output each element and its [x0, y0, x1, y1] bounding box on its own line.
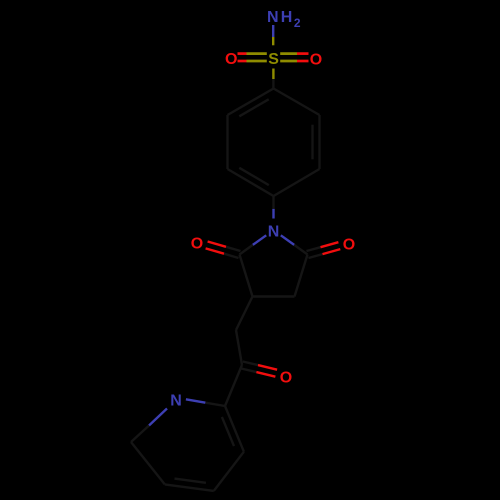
svg-text:N: N — [170, 392, 182, 409]
svg-text:O: O — [191, 236, 203, 253]
double bond C2=O2 — [206, 242, 241, 259]
bond NH2-S — [272, 25, 274, 45]
bond carbonyl-pyridine C2 — [225, 365, 242, 406]
sulfonyl oxygen O left label — [225, 51, 237, 68]
double bond C5=O5 — [307, 242, 341, 258]
bond S-benzene — [272, 69, 274, 89]
pyridine nitrogen N label — [170, 392, 182, 409]
double bond S=O right — [280, 54, 308, 61]
sulfonyl oxygen O right label — [310, 51, 322, 68]
svg-text:H: H — [281, 9, 293, 26]
svg-text:O: O — [310, 51, 322, 68]
bond N1-C2 — [240, 235, 267, 254]
bond C3-C4 — [253, 295, 295, 297]
double bond S=O left — [238, 54, 267, 61]
bond benzene-N1 — [272, 196, 274, 219]
svg-text:O: O — [280, 369, 292, 386]
sulfur S label — [268, 51, 279, 68]
bond CH2-carbonyl — [236, 330, 242, 365]
svg-text:O: O — [343, 237, 355, 254]
svg-text:N: N — [267, 9, 279, 26]
bond C2-C3 — [240, 255, 253, 297]
bond C3-CH2 — [236, 297, 253, 331]
ketone oxygen O label — [280, 369, 292, 386]
amine group NH2 label — [267, 9, 301, 30]
bond pyridine N-C6 — [131, 409, 167, 443]
benzene ring — [228, 89, 320, 197]
bond pyridine N-C2 — [186, 399, 225, 406]
svg-text:O: O — [225, 51, 237, 68]
svg-text:2: 2 — [294, 16, 301, 30]
double bond C=O ketone — [241, 362, 277, 377]
succinimide nitrogen N1 label — [268, 223, 280, 240]
carbonyl oxygen O2 label — [191, 236, 203, 253]
svg-text:N: N — [268, 223, 280, 240]
bond C5-C4 — [295, 255, 308, 297]
svg-text:S: S — [268, 51, 279, 68]
bond N1-C5 — [281, 235, 308, 254]
pyridine ring — [131, 406, 244, 491]
carbonyl oxygen O5 label — [343, 237, 355, 254]
